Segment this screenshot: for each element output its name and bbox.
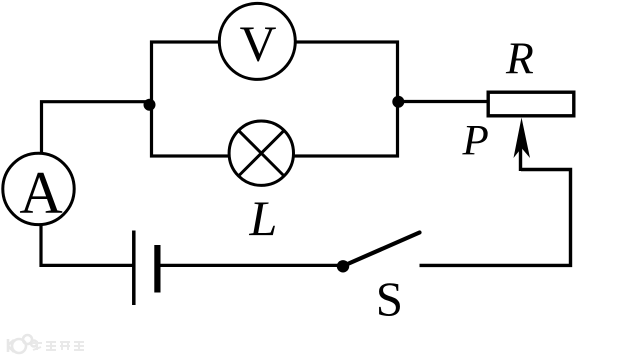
battery cell: long thin plate (positive) [132, 231, 136, 306]
rheostat slider P: shaft [519, 147, 522, 171]
svg-text:A: A [19, 160, 62, 226]
lamp L: circle with X [229, 121, 293, 185]
svg-text:V: V [240, 17, 277, 73]
wire: battery to switch pivot [160, 264, 342, 267]
svg-text:P: P [462, 118, 489, 165]
watermark text blobs (faint) [32, 341, 84, 350]
rheostat R: resistor box [488, 92, 574, 116]
node: left junction dot [144, 99, 156, 111]
wire: ammeter top branch from node to ammeter [42, 102, 152, 152]
node: right junction dot [392, 96, 404, 108]
svg-text:L: L [249, 190, 278, 246]
rheostat slider P: arrowhead [514, 118, 531, 159]
svg-text:S: S [376, 272, 403, 327]
wire: node to rheostat left terminal [398, 100, 488, 103]
watermark logo (faint) [8, 335, 37, 353]
wire: switch right side up to rheostat slider [420, 170, 571, 266]
wire: ammeter bottom to battery [41, 226, 133, 265]
wire: parallel-branch rectangle (top wire to V, left/right verticals, lamp wire) [152, 42, 398, 156]
switch S: lever arm [343, 233, 420, 267]
ammeter: circle [3, 153, 74, 224]
switch S: pivot dot [337, 260, 349, 272]
battery cell: short thick plate (negative) [154, 245, 160, 293]
svg-text:R: R [505, 33, 534, 84]
voltmeter U: circle [219, 3, 295, 79]
